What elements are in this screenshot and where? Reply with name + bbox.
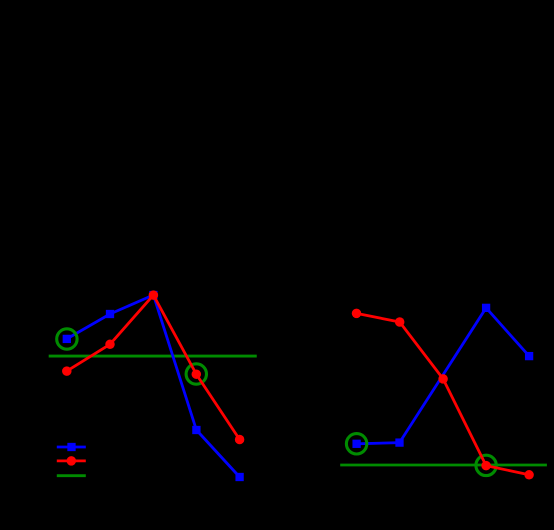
left panel: blue square markers xyxy=(63,291,244,481)
right panel: green reference hline xyxy=(340,464,547,467)
left panel: blue series line xyxy=(67,295,240,477)
left panel: green highlight circle on blue point 1 xyxy=(57,329,77,349)
right panel: green highlight circle on red point 4 xyxy=(476,455,496,475)
legend: green entry xyxy=(57,474,86,477)
left panel: green highlight circle on red point 4 xyxy=(186,364,206,384)
left panel: green reference hline xyxy=(49,355,257,358)
right panel: blue square markers xyxy=(352,304,533,448)
right panel: green highlight circle on blue point 1 xyxy=(346,434,366,454)
left panel: red series line xyxy=(67,295,240,439)
legend: red entry xyxy=(57,459,86,462)
legend: blue entry xyxy=(57,446,86,449)
right panel: red circle markers xyxy=(352,309,534,480)
left panel: red circle markers xyxy=(62,290,244,444)
right panel: red series line xyxy=(357,313,530,474)
right panel: blue series line xyxy=(357,308,529,444)
